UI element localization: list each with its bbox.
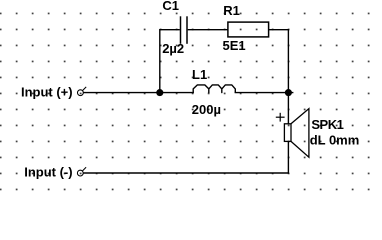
- wire: node A up and across to capacitor C1: [160, 30, 180, 93]
- svg-text:Input (+): Input (+): [21, 84, 73, 99]
- wire: Input (+) terminal to inductor L1: [84, 92, 194, 94]
- wire: resistor R1 down to node B: [269, 30, 289, 93]
- junction node A: [156, 89, 163, 96]
- resistor R1: [228, 22, 269, 37]
- svg-text:C1: C1: [162, 0, 179, 13]
- speaker SPK1: [284, 109, 309, 158]
- svg-text:2µ2: 2µ2: [162, 41, 184, 56]
- svg-text:SPK1: SPK1: [311, 117, 343, 132]
- svg-text:R1: R1: [223, 3, 240, 18]
- svg-text:L1: L1: [192, 67, 207, 82]
- wire: capacitor C1 to resistor R1: [188, 29, 228, 31]
- svg-text:5E1: 5E1: [223, 38, 246, 53]
- capacitor C1: [181, 16, 188, 44]
- wire: node B down to speaker SPK1: [287, 93, 289, 124]
- terminal: Input (+): [78, 87, 87, 96]
- inductor L1: [193, 85, 235, 93]
- svg-text:Input (-): Input (-): [24, 165, 72, 180]
- wire: speaker SPK1 down and across to Input (-) terminal: [83, 141, 288, 173]
- terminal: Input (-): [77, 167, 86, 176]
- junction node B: [285, 89, 292, 96]
- svg-text:dL 0mm: dL 0mm: [310, 133, 360, 148]
- wire: inductor L1 to node B stub: [235, 92, 294, 94]
- SPK1 plus polarity mark: [276, 113, 285, 122]
- svg-text:200µ: 200µ: [192, 102, 221, 117]
